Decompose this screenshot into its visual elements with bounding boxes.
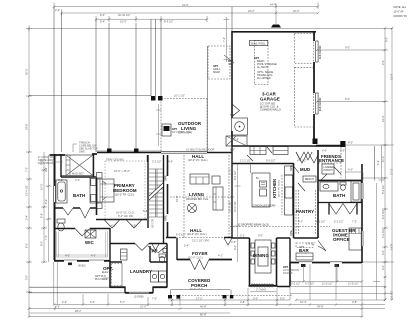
svg-text:4'-0 1/2": 4'-0 1/2" bbox=[316, 220, 326, 224]
svg-text:AL-TECH: AL-TECH bbox=[257, 66, 268, 69]
stairs walls bbox=[148, 155, 164, 244]
svg-text:DINING: DINING bbox=[253, 253, 269, 258]
svg-text:6'-0 1/2": 6'-0 1/2" bbox=[381, 209, 385, 219]
left wall bbox=[54, 154, 56, 260]
svg-text:COMMON WALLS: COMMON WALLS bbox=[260, 109, 281, 112]
laundry cabinets left bbox=[121, 249, 128, 260]
svg-text:NOTE: ALL: NOTE: ALL bbox=[394, 6, 407, 9]
svg-text:41'-6": 41'-6" bbox=[182, 3, 189, 7]
corridor built-ins bbox=[250, 147, 266, 155]
under stair closet bbox=[226, 136, 247, 146]
svg-text:PLC HERE: PLC HERE bbox=[95, 278, 108, 281]
svg-text:86'-8": 86'-8" bbox=[200, 312, 207, 316]
svg-text:4'-0": 4'-0" bbox=[381, 265, 385, 270]
house top wall bbox=[50, 154, 98, 155]
svg-text:5'-4": 5'-4" bbox=[184, 244, 189, 248]
svg-text:14'-8": 14'-8" bbox=[390, 243, 394, 250]
tub bbox=[56, 180, 67, 203]
left dim vertical bbox=[26, 28, 32, 317]
bottom dim lines bbox=[29, 262, 385, 317]
svg-text:9x8 OH DR: 9x8 OH DR bbox=[318, 97, 322, 111]
svg-text:9'-8": 9'-8" bbox=[352, 300, 357, 304]
svg-text:4'-0 1/2": 4'-0 1/2" bbox=[297, 159, 307, 163]
bottom tick verticals bbox=[148, 264, 336, 306]
svg-text:5'-2 1/2": 5'-2 1/2" bbox=[381, 228, 385, 238]
svg-text:8'-0": 8'-0" bbox=[40, 241, 44, 246]
interior dim texts bbox=[58, 94, 357, 258]
svg-text:4'-0": 4'-0" bbox=[348, 168, 353, 172]
stairs bbox=[149, 169, 163, 217]
svg-text:(10'-0" TR. CLG.): (10'-0" TR. CLG.) bbox=[115, 194, 134, 197]
friends entrance porch dash bbox=[318, 147, 341, 178]
linen X cabinets bbox=[85, 230, 96, 238]
svg-text:28'-2": 28'-2" bbox=[75, 309, 82, 313]
svg-text:3'-0": 3'-0" bbox=[25, 275, 29, 280]
svg-text:9'-0": 9'-0" bbox=[258, 234, 263, 238]
svg-text:9'-0": 9'-0" bbox=[280, 297, 285, 301]
svg-text:3'-0": 3'-0" bbox=[340, 149, 345, 153]
svg-text:OPE.: OPE. bbox=[289, 165, 293, 171]
svg-text:(12'-0" CLG.): (12'-0" CLG.) bbox=[188, 256, 203, 260]
svg-text:B.I.: B.I. bbox=[256, 177, 260, 180]
bottom wall laundry stepped bbox=[110, 286, 167, 288]
right rotated dim texts bbox=[345, 37, 394, 300]
garage doors bbox=[316, 41, 318, 62]
svg-text:WIC: WIC bbox=[85, 240, 95, 245]
bottom right dims bbox=[290, 183, 392, 317]
svg-text:21'-2 1/2" OPG: 21'-2 1/2" OPG bbox=[192, 239, 209, 243]
svg-text:ENTRANCE: ENTRANCE bbox=[319, 158, 344, 163]
svg-text:4'-8": 4'-8" bbox=[240, 300, 245, 304]
svg-text:ICE: ICE bbox=[228, 63, 233, 66]
fireplace dim bbox=[156, 104, 161, 146]
svg-text:10'-0" AF: 10'-0" AF bbox=[394, 11, 405, 14]
friends door arc bbox=[320, 167, 341, 181]
svg-text:OPT.: OPT. bbox=[299, 246, 305, 249]
svg-text:8'-4": 8'-4" bbox=[100, 13, 105, 17]
svg-text:13'-4 1/2": 13'-4 1/2" bbox=[25, 185, 29, 196]
bottom dim texts bbox=[55, 282, 359, 317]
svg-text:5'-4": 5'-4" bbox=[90, 300, 95, 304]
wic top wall bbox=[54, 228, 110, 262]
svg-text:46'-8": 46'-8" bbox=[200, 304, 207, 308]
svg-text:2'-0 1/2": 2'-0 1/2" bbox=[390, 290, 394, 300]
wic rods bbox=[57, 232, 108, 258]
pantry shelves bbox=[296, 190, 299, 234]
svg-text:OPE.: OPE. bbox=[163, 175, 167, 181]
svg-text:BATH: BATH bbox=[73, 193, 85, 198]
svg-text:19'-8": 19'-8" bbox=[175, 195, 179, 202]
svg-text:DOORS: DOORS bbox=[283, 271, 293, 275]
garage opt storage dashed right bbox=[295, 34, 314, 64]
svg-text:27'-2": 27'-2" bbox=[390, 168, 394, 175]
svg-text:10'-2": 10'-2" bbox=[40, 183, 44, 190]
svg-text:8'-0" HD. DR.: 8'-0" HD. DR. bbox=[118, 214, 134, 218]
svg-text:LAUNDRY: LAUNDRY bbox=[130, 269, 152, 274]
svg-text:2'-0": 2'-0" bbox=[55, 8, 60, 12]
svg-text:11'-0 x 7'-0: 11'-0 x 7'-0 bbox=[190, 287, 203, 291]
shower bbox=[61, 155, 93, 176]
yard mid line bbox=[29, 95, 151, 97]
svg-text:16'-0": 16'-0" bbox=[120, 20, 127, 24]
svg-text:OFFICE: OFFICE bbox=[333, 237, 350, 242]
front door double arc bbox=[190, 260, 209, 270]
svg-text:30'-2": 30'-2" bbox=[25, 68, 29, 75]
kitchen left dim line bbox=[235, 164, 241, 262]
svg-text:FROM BLDG: FROM BLDG bbox=[38, 161, 53, 165]
svg-text:2'-2 1/2": 2'-2 1/2" bbox=[152, 160, 162, 164]
site lines below wic bbox=[29, 287, 125, 293]
svg-text:17'-2": 17'-2" bbox=[196, 297, 203, 301]
pantry right shelves bbox=[315, 190, 317, 234]
svg-text:5'-8": 5'-8" bbox=[230, 113, 235, 117]
svg-text:11'-2": 11'-2" bbox=[381, 156, 385, 162]
svg-text:15' MULTI SLIDE DOOR: 15' MULTI SLIDE DOOR bbox=[186, 148, 215, 152]
porch columns bbox=[168, 295, 172, 299]
right wall house upper bbox=[361, 164, 363, 203]
svg-text:OPE.: OPE. bbox=[289, 230, 293, 236]
svg-text:8" DROPPED BEAM (2x12): 8" DROPPED BEAM (2x12) bbox=[238, 224, 269, 227]
bath2 shower bbox=[351, 181, 361, 202]
kitchen counter top bbox=[250, 165, 252, 174]
columns top wall bbox=[107, 149, 112, 154]
left yard verticals bbox=[54, 7, 136, 154]
svg-text:(10'-0" VC. CLG.): (10'-0" VC. CLG.) bbox=[187, 233, 207, 236]
garage opt pool equip dashed bbox=[255, 41, 269, 85]
svg-text:8'-4": 8'-4" bbox=[100, 20, 105, 24]
svg-text:FOYER: FOYER bbox=[192, 251, 208, 256]
pr sink bbox=[163, 249, 167, 253]
left inner dim stack bbox=[41, 152, 52, 262]
friends entrance porch box bbox=[322, 164, 334, 174]
svg-text:2'-8 1/2": 2'-8 1/2" bbox=[306, 242, 316, 246]
svg-text:9'-2": 9'-2" bbox=[44, 199, 48, 204]
ceiling fan bbox=[188, 204, 197, 213]
wic door arcs bbox=[75, 229, 90, 237]
svg-text:9'-0": 9'-0" bbox=[233, 245, 237, 250]
wic bottom wall bbox=[54, 260, 110, 262]
svg-text:9'-0": 9'-0" bbox=[345, 46, 350, 50]
svg-text:17'-2 1/2": 17'-2 1/2" bbox=[240, 159, 251, 163]
bath2 toilet bbox=[340, 182, 346, 185]
svg-text:4'-0": 4'-0" bbox=[65, 254, 70, 258]
wic right wall down bbox=[109, 261, 111, 288]
pr toilet bbox=[159, 254, 166, 257]
porch slab bbox=[170, 295, 293, 297]
svg-text:7'-0": 7'-0" bbox=[152, 297, 157, 301]
fireplace bbox=[162, 124, 171, 136]
bed primary nightstands bbox=[97, 173, 103, 179]
svg-text:4'-7": 4'-7" bbox=[298, 220, 303, 224]
svg-text:8'-2 1/2": 8'-2 1/2" bbox=[233, 170, 237, 180]
svg-text:4'-2": 4'-2" bbox=[55, 304, 60, 308]
bedroom door arcs bbox=[104, 220, 142, 229]
svg-text:PANTRY: PANTRY bbox=[296, 209, 314, 214]
svg-text:7'-4": 7'-4" bbox=[44, 235, 48, 240]
living west wall bbox=[167, 155, 169, 238]
svg-text:11'-8 1/2": 11'-8 1/2" bbox=[348, 282, 359, 286]
mud door arc bbox=[294, 166, 300, 173]
svg-text:4'-0": 4'-0" bbox=[231, 240, 236, 244]
svg-text:(10'-0" VC. CLG.): (10'-0" VC. CLG.) bbox=[279, 180, 281, 197]
svg-text:9'-0": 9'-0" bbox=[345, 97, 350, 101]
svg-text:5'-8": 5'-8" bbox=[234, 138, 239, 142]
svg-text:5'-2": 5'-2" bbox=[376, 160, 380, 165]
water heater garage bbox=[232, 118, 248, 135]
foyer side walls bbox=[177, 146, 290, 262]
svg-text:24'-8": 24'-8" bbox=[25, 123, 29, 130]
svg-text:6'-2 1/2": 6'-2 1/2" bbox=[334, 220, 344, 224]
svg-text:PR: PR bbox=[152, 249, 159, 254]
mud bench bbox=[303, 176, 316, 182]
mud / pantry walls bbox=[294, 150, 319, 238]
mud lockers bbox=[296, 152, 312, 160]
svg-text:OPE.: OPE. bbox=[163, 215, 167, 221]
garage outline bbox=[232, 31, 316, 33]
bath vanity двойная bbox=[90, 177, 97, 203]
svg-text:3'-1": 3'-1" bbox=[240, 234, 245, 238]
bar upper dash bbox=[296, 243, 313, 248]
bath walls bbox=[61, 154, 96, 177]
svg-text:BATH: BATH bbox=[333, 193, 345, 198]
svg-text:16'-4": 16'-4" bbox=[300, 300, 307, 304]
svg-text:4'-0": 4'-0" bbox=[168, 160, 173, 164]
svg-text:(10'-0" VC. CLG.): (10'-0" VC. CLG.) bbox=[188, 159, 208, 162]
kitchen fridge etc bbox=[285, 166, 294, 175]
bath door arcs bbox=[63, 208, 90, 218]
svg-text:10'-0 1/2": 10'-0 1/2" bbox=[233, 201, 237, 212]
svg-text:4'-0": 4'-0" bbox=[111, 224, 116, 228]
garage front verticals bbox=[151, 19, 208, 152]
black marker on top line bbox=[271, 25, 281, 28]
svg-text:12'-0 x 10'-0: 12'-0 x 10'-0 bbox=[178, 131, 193, 135]
svg-text:7'-0": 7'-0" bbox=[25, 167, 29, 172]
svg-text:5'-8": 5'-8" bbox=[131, 224, 136, 228]
svg-text:8'-0": 8'-0" bbox=[230, 148, 235, 152]
kitchen island bbox=[252, 173, 270, 207]
svg-text:5'-4": 5'-4" bbox=[25, 215, 29, 220]
left yard note bbox=[38, 155, 57, 165]
svg-text:22'-2": 22'-2" bbox=[248, 9, 255, 13]
svg-text:KITCHEN: KITCHEN bbox=[272, 179, 277, 198]
svg-text:(4050): (4050) bbox=[78, 264, 86, 268]
svg-text:2' OVHG: 2' OVHG bbox=[256, 288, 266, 292]
svg-text:6'-8": 6'-8" bbox=[40, 213, 44, 218]
svg-text:5'-0": 5'-0" bbox=[253, 297, 258, 301]
svg-text:22'-0": 22'-0" bbox=[140, 304, 147, 308]
svg-text:17'-1": 17'-1" bbox=[228, 168, 232, 175]
svg-text:7'-2": 7'-2" bbox=[352, 220, 357, 224]
svg-text:6'-2": 6'-2" bbox=[62, 300, 67, 304]
outdoor living dashed bbox=[161, 99, 207, 152]
svg-text:4'-0": 4'-0" bbox=[91, 254, 96, 258]
svg-text:8'-0": 8'-0" bbox=[25, 243, 29, 248]
window tags bbox=[301, 264, 306, 267]
top dim line A bbox=[54, 3, 318, 10]
svg-text:PORCH: PORCH bbox=[324, 169, 333, 172]
svg-text:MUD SET: MUD SET bbox=[72, 172, 84, 176]
guest closet zigzag bbox=[329, 204, 357, 215]
svg-text:4'-4": 4'-4" bbox=[381, 250, 385, 255]
svg-text:5'-7 1/2": 5'-7 1/2" bbox=[305, 282, 315, 286]
bottom right wall bbox=[290, 262, 362, 264]
svg-text:34'-8": 34'-8" bbox=[317, 304, 324, 308]
svg-text:8'-3 1/2": 8'-3 1/2" bbox=[164, 20, 174, 24]
svg-text:9x8 OH DR: 9x8 OH DR bbox=[318, 45, 322, 59]
porch col line bbox=[96, 150, 161, 152]
svg-text:DWG: DWG bbox=[79, 150, 85, 154]
svg-text:3'-2": 3'-2" bbox=[75, 178, 80, 182]
svg-text:8'-2 1/2": 8'-2 1/2" bbox=[381, 184, 385, 194]
svg-text:4'-1": 4'-1" bbox=[218, 254, 223, 258]
fireplace note bbox=[169, 127, 191, 134]
svg-text:GARAGE: GARAGE bbox=[260, 97, 280, 102]
svg-text:22'-2": 22'-2" bbox=[293, 9, 300, 13]
top dim line B bbox=[62, 9, 319, 15]
dining bay bbox=[250, 238, 277, 285]
svg-text:MUD: MUD bbox=[300, 167, 310, 172]
svg-text:SEAS. POOL: SEAS. POOL bbox=[251, 43, 267, 46]
dining table bbox=[255, 240, 271, 273]
living sofa 1 bbox=[190, 174, 209, 184]
foyer front wall bbox=[177, 259, 232, 261]
svg-text:9'-0": 9'-0" bbox=[385, 37, 389, 42]
bath2 vanity bbox=[320, 182, 338, 191]
svg-text:DOORS TO: DOORS TO bbox=[394, 15, 407, 18]
chair bbox=[212, 176, 220, 184]
svg-text:7'-2": 7'-2" bbox=[222, 37, 226, 42]
svg-text:40'-10 1/2": 40'-10 1/2" bbox=[118, 13, 130, 17]
kitchen upper dashes bbox=[281, 175, 283, 215]
corridor walls hall bbox=[232, 145, 341, 147]
svg-text:4'-2": 4'-2" bbox=[176, 297, 181, 301]
pantry door bbox=[298, 183, 305, 191]
left rotated dim texts bbox=[25, 68, 49, 280]
svg-text:LIVING: LIVING bbox=[189, 192, 205, 197]
right dim verticals bbox=[382, 29, 392, 300]
svg-text:TRAY CEILING: TRAY CEILING bbox=[106, 158, 124, 162]
hall-laundry doors bbox=[135, 244, 159, 251]
trench curb note bbox=[73, 141, 98, 154]
svg-text:5'-7": 5'-7" bbox=[120, 300, 125, 304]
svg-text:31'-4": 31'-4" bbox=[390, 73, 394, 80]
svg-text:BENCH: BENCH bbox=[305, 178, 314, 181]
svg-text:36x48: 36x48 bbox=[213, 71, 220, 74]
svg-text:UP 17R: UP 17R bbox=[151, 219, 155, 228]
svg-text:4'-6": 4'-6" bbox=[44, 167, 48, 172]
svg-text:VAULTED BM. CLG.: VAULTED BM. CLG. bbox=[186, 198, 209, 201]
garage side door arc bbox=[232, 104, 240, 117]
kitchen/living divider dashed beam bbox=[230, 226, 330, 228]
svg-text:6'-2 1/2": 6'-2 1/2" bbox=[176, 233, 186, 237]
opt outdoor kitchen dashed bbox=[208, 46, 230, 79]
bedroom walls bbox=[147, 155, 149, 162]
foyer door swing bbox=[224, 238, 232, 245]
laundry walls bbox=[110, 244, 167, 263]
bed primary bbox=[97, 179, 114, 202]
svg-text:5'-2 1/2": 5'-2 1/2" bbox=[291, 282, 301, 286]
garage door rotated labels bbox=[318, 45, 322, 111]
multi-slide door bbox=[161, 151, 207, 153]
right horizontal dims bbox=[317, 50, 394, 262]
svg-text:19'-4": 19'-4" bbox=[381, 115, 385, 122]
toilet bath bbox=[57, 219, 65, 223]
svg-text:10'-0" VC. CLG.: 10'-0" VC. CLG. bbox=[116, 211, 135, 215]
svg-text:11'-5 1/2": 11'-5 1/2" bbox=[322, 282, 333, 286]
svg-text:CONCEALED BEAM: CONCEALED BEAM bbox=[252, 205, 275, 208]
top dim line C bbox=[96, 16, 207, 22]
svg-text:OPT.: OPT. bbox=[254, 57, 260, 60]
sofa 2 vertical bbox=[213, 187, 223, 210]
opt elev dashed bbox=[112, 264, 123, 286]
laundry right wall bbox=[166, 244, 168, 288]
bar cabinet bbox=[296, 253, 313, 260]
svg-text:(2-DRB): (2-DRB) bbox=[134, 295, 144, 299]
kitchen counter right bbox=[285, 175, 293, 215]
tray ceiling dashed bbox=[105, 161, 145, 219]
svg-text:8'-0": 8'-0" bbox=[348, 141, 353, 145]
laundry washer dryer bbox=[151, 271, 159, 282]
svg-text:12'-2 1/2": 12'-2 1/2" bbox=[228, 201, 232, 212]
accordion doors note bbox=[283, 266, 299, 275]
water closet door laundry bbox=[148, 246, 166, 253]
svg-text:16'-0" x 15'-0": 16'-0" x 15'-0" bbox=[114, 169, 130, 173]
bath guest wall bbox=[318, 203, 362, 215]
guest bed bbox=[349, 228, 362, 250]
svg-text:5'-0 1/2": 5'-0 1/2" bbox=[266, 159, 276, 163]
svg-text:44'-4": 44'-4" bbox=[270, 3, 277, 7]
building line top bbox=[26, 25, 392, 31]
svg-text:ELEV.: ELEV. bbox=[102, 271, 109, 274]
svg-text:4'-0": 4'-0" bbox=[322, 149, 327, 153]
guest door swing bbox=[318, 241, 326, 252]
svg-text:5'-8": 5'-8" bbox=[143, 209, 148, 213]
svg-text:9'-0": 9'-0" bbox=[381, 60, 385, 65]
dining windows ticks bbox=[252, 283, 272, 287]
svg-text:10'-1 1/2": 10'-1 1/2" bbox=[174, 94, 185, 98]
svg-text:BEDROOM: BEDROOM bbox=[113, 188, 137, 193]
svg-text:AL LIMITED: AL LIMITED bbox=[257, 77, 271, 80]
svg-text:6'-8": 6'-8" bbox=[58, 178, 63, 182]
